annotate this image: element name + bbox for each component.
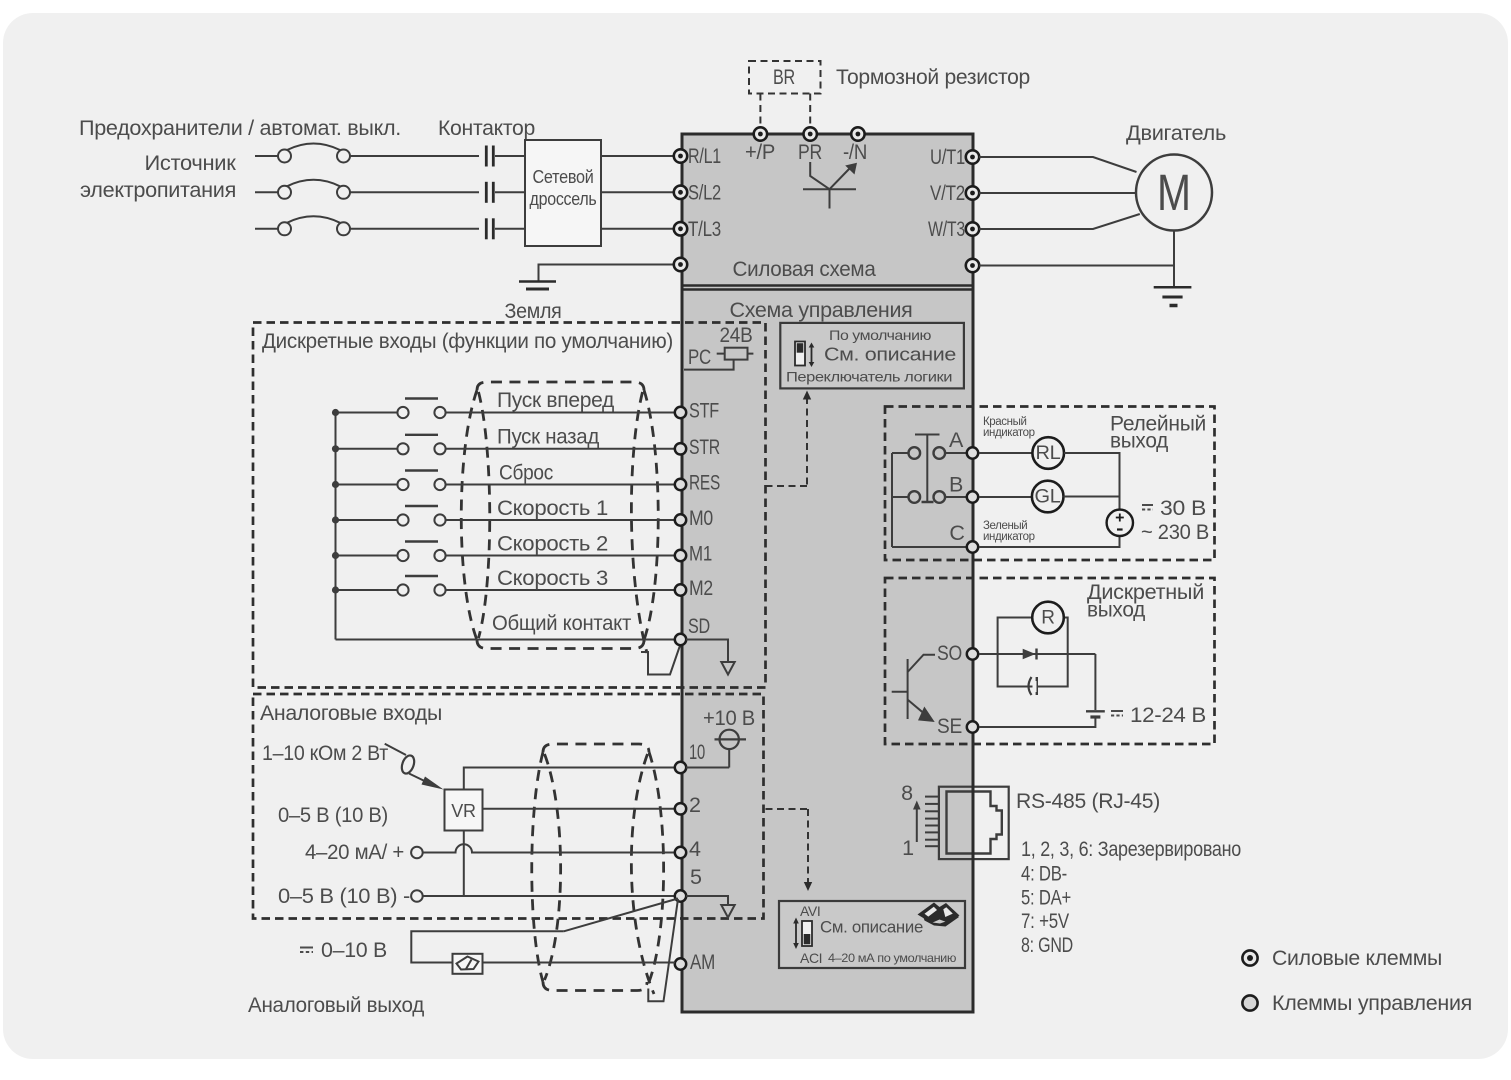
cable shield ellipse discrete bbox=[461, 382, 658, 653]
svg-text:0–5 В (10 В): 0–5 В (10 В) bbox=[278, 803, 388, 827]
switch M1 (Скорость 2) bbox=[336, 542, 676, 562]
svg-text:1, 2, 3, 6: Зарезервировано: 1, 2, 3, 6: Зарезервировано bbox=[1021, 837, 1241, 861]
input node voltage- bbox=[411, 890, 423, 902]
svg-text:A: A bbox=[949, 428, 964, 452]
wire U/T1 to motor bbox=[979, 157, 1137, 172]
svg-text:индикатор: индикатор bbox=[983, 531, 1035, 543]
svg-text:T/L3: T/L3 bbox=[688, 217, 721, 241]
terminal R/L1 bbox=[674, 149, 687, 162]
wire SD internal to ground arrow bbox=[686, 640, 728, 663]
wire reactor to S/L2 bbox=[601, 191, 675, 193]
shield hook to terminal 5 bbox=[648, 899, 678, 1001]
svg-text:M0: M0 bbox=[689, 506, 713, 530]
svg-text:1: 1 bbox=[902, 836, 914, 860]
VR box bbox=[445, 790, 483, 831]
svg-text:STR: STR bbox=[689, 435, 720, 459]
svg-text:Силовая схема: Силовая схема bbox=[733, 257, 876, 281]
node STR bus junction bbox=[332, 445, 339, 452]
wire B to GL lamp bbox=[979, 496, 1032, 498]
svg-text:R: R bbox=[1041, 608, 1054, 629]
terminal W/T3 bbox=[966, 222, 979, 235]
switch RES (Сброс) bbox=[336, 471, 676, 491]
terminal PE left bbox=[674, 258, 687, 271]
logic switch box (Переключатель логики) bbox=[780, 323, 964, 389]
svg-text:Общий контакт: Общий контакт bbox=[492, 611, 631, 635]
svg-text:PR: PR bbox=[798, 140, 822, 164]
svg-text:Тормозной резистор: Тормозной резистор bbox=[836, 65, 1030, 89]
svg-text:M1: M1 bbox=[689, 542, 712, 566]
relay contact B (NC) bbox=[892, 491, 966, 503]
switch STF (Пуск вперед) bbox=[336, 399, 676, 419]
svg-text:10: 10 bbox=[689, 740, 705, 764]
relay pole armature bbox=[915, 435, 940, 503]
terminal T/L3 bbox=[674, 222, 687, 235]
24V fuse PC bbox=[684, 323, 753, 370]
svg-text:8: 8 bbox=[901, 781, 913, 805]
terminal STF bbox=[675, 407, 686, 418]
svg-text:Пуск назад: Пуск назад bbox=[497, 425, 600, 449]
terminal AM bbox=[675, 958, 686, 969]
svg-text:электропитания: электропитания bbox=[80, 178, 236, 202]
analog output loop wires bbox=[411, 899, 678, 963]
wire phase T input bbox=[255, 228, 525, 230]
ground symbol Земля bbox=[519, 282, 556, 290]
cable shield ellipse analog bbox=[532, 744, 664, 994]
terminal 4 bbox=[675, 847, 686, 858]
svg-text:4–20 мА по умолчанию: 4–20 мА по умолчанию bbox=[828, 951, 956, 965]
terminal B bbox=[967, 491, 978, 502]
snubber loop with R lamp bbox=[998, 618, 1068, 687]
svg-text:+/P: +/P bbox=[745, 140, 775, 164]
label: Красный индикатор bbox=[983, 416, 1035, 439]
inverter main box bbox=[682, 134, 973, 1012]
svg-text:PC: PC bbox=[688, 345, 711, 369]
contactor contact phase T bbox=[486, 218, 493, 239]
brake chopper transistor bbox=[803, 162, 857, 209]
input node 4-20mA bbox=[411, 847, 423, 859]
svg-text:ACI: ACI bbox=[800, 950, 822, 966]
terminal M1 bbox=[675, 550, 686, 561]
dashed wire BR to PR bbox=[809, 94, 811, 128]
svg-text:-/N: -/N bbox=[843, 140, 867, 164]
svg-text:Скорость 1: Скорость 1 bbox=[497, 496, 608, 520]
dashed link analog box to AVI selector bbox=[766, 809, 813, 891]
svg-text:5: DA+: 5: DA+ bbox=[1021, 886, 1071, 910]
label: = 12-24 В bbox=[1111, 703, 1206, 727]
label: Релейный выход bbox=[1110, 412, 1206, 453]
wire voltage input lower bbox=[423, 895, 676, 897]
svg-text:Контактор: Контактор bbox=[438, 116, 535, 140]
contactor contact phase R bbox=[486, 146, 493, 167]
switch M2 (Скорость 3) bbox=[336, 576, 676, 596]
line reactor box: Сетевой дроссель bbox=[525, 140, 601, 246]
diode on SO wire bbox=[1023, 649, 1037, 660]
svg-text:M: M bbox=[1157, 164, 1191, 221]
svg-text:Сброс: Сброс bbox=[499, 461, 553, 485]
terminal 2 bbox=[675, 803, 686, 814]
terminal SD bbox=[675, 634, 686, 645]
svg-text:4: 4 bbox=[689, 837, 701, 861]
wire VR lower leg bbox=[463, 831, 465, 897]
terminal RES bbox=[675, 479, 686, 490]
svg-text:дроссель: дроссель bbox=[530, 189, 597, 209]
svg-text:Клеммы управления: Клеммы управления bbox=[1272, 991, 1472, 1015]
svg-text:Предохранители / автомат. выкл: Предохранители / автомат. выкл. bbox=[79, 116, 401, 140]
wire SD common bbox=[336, 639, 676, 641]
open collector transistor bbox=[892, 655, 935, 721]
svg-text:Пуск вперед: Пуск вперед bbox=[497, 388, 615, 412]
node STF bus junction bbox=[332, 409, 339, 416]
svg-text:1–10 кОм 2 Вт: 1–10 кОм 2 Вт bbox=[262, 741, 388, 765]
svg-text:Двигатель: Двигатель bbox=[1126, 121, 1226, 145]
brake resistor BR dashed box bbox=[749, 61, 821, 94]
terminal M2 bbox=[675, 584, 686, 595]
ground arrow at SD bbox=[721, 662, 734, 675]
svg-text:24В: 24В bbox=[720, 323, 753, 347]
wire W/T3 to motor bbox=[979, 214, 1140, 229]
svg-text:См. описание: См. описание bbox=[820, 919, 923, 937]
svg-text:AM: AM bbox=[690, 950, 715, 974]
node RES bus junction bbox=[332, 481, 339, 488]
svg-text:Скорость 2: Скорость 2 bbox=[497, 532, 608, 556]
svg-text:SD: SD bbox=[688, 614, 710, 638]
svg-text:W/T3: W/T3 bbox=[928, 217, 965, 241]
battery source relay circuit bbox=[1107, 510, 1133, 536]
node M0 bus junction bbox=[332, 516, 339, 523]
fuse/breaker switch phase T bbox=[278, 216, 350, 235]
svg-text:См. описание: См. описание bbox=[824, 344, 956, 365]
fuse/breaker switch phase S bbox=[278, 180, 350, 199]
svg-text:U/T1: U/T1 bbox=[930, 145, 965, 169]
svg-text:Дискретные входы (функции по у: Дискретные входы (функции по умолчанию) bbox=[262, 329, 673, 353]
svg-text:выход: выход bbox=[1110, 429, 1169, 453]
terminal S/L2 bbox=[674, 186, 687, 199]
wire terminal 5 to internal ground arrow bbox=[686, 896, 728, 905]
+10V source symbol bbox=[686, 730, 746, 768]
relay supply wires bbox=[979, 453, 1120, 547]
svg-text:Аналоговые входы: Аналоговые входы bbox=[260, 701, 442, 725]
svg-text:Скорость 3: Скорость 3 bbox=[497, 566, 608, 590]
svg-text:0–5 В (10 В) -: 0–5 В (10 В) - bbox=[278, 884, 410, 908]
wire V/T2 to motor bbox=[979, 192, 1136, 194]
dashed link logic box to discrete inputs bbox=[766, 391, 812, 487]
node M2 bus junction bbox=[332, 586, 339, 593]
terminal C bbox=[967, 541, 978, 552]
logic slide switch icon bbox=[795, 342, 814, 368]
wire VR to terminal 10 bbox=[464, 768, 675, 790]
ground arrow at terminal 5 bbox=[721, 905, 734, 918]
book icon (see manual) bbox=[918, 903, 960, 927]
svg-text:0–10 В: 0–10 В bbox=[321, 938, 387, 962]
svg-text:SE: SE bbox=[937, 714, 962, 738]
switch M0 (Скорость 1) bbox=[336, 506, 676, 526]
label: Дискретный выход bbox=[1087, 580, 1204, 622]
wire reactor to R/L1 bbox=[601, 155, 675, 157]
pin order arrow bbox=[913, 801, 921, 843]
lamp RL (red indicator) bbox=[1032, 437, 1064, 469]
wire current input with hop bbox=[423, 844, 676, 852]
svg-text:B: B bbox=[949, 473, 963, 497]
relay output dashed box bbox=[885, 407, 1215, 561]
svg-text:индикатор: индикатор bbox=[983, 427, 1035, 439]
potentiometer symbol bbox=[385, 744, 444, 790]
svg-text:RL: RL bbox=[1036, 443, 1061, 464]
svg-text:выход: выход bbox=[1087, 598, 1146, 622]
svg-text:По умолчанию: По умолчанию bbox=[829, 327, 931, 343]
contactor contact phase S bbox=[486, 182, 493, 203]
svg-text:GL: GL bbox=[1035, 487, 1061, 508]
terminal 10 bbox=[675, 762, 686, 773]
legend power terminal symbol bbox=[1242, 950, 1257, 965]
wire phase S input bbox=[255, 191, 525, 193]
terminal PR bbox=[804, 127, 817, 140]
svg-text:Переключатель логики: Переключатель логики bbox=[786, 369, 952, 385]
terminal SO bbox=[967, 648, 978, 659]
fuse/breaker switch phase R bbox=[278, 144, 350, 163]
relay common wire to C bbox=[892, 453, 966, 547]
terminal SE bbox=[967, 721, 978, 732]
terminal V/T2 bbox=[966, 186, 979, 199]
svg-text:BR: BR bbox=[773, 65, 795, 89]
motor earth wire bbox=[979, 231, 1174, 288]
svg-text:Источник: Источник bbox=[145, 151, 237, 175]
terminal U/T1 bbox=[966, 150, 979, 163]
legend control terminal symbol bbox=[1242, 995, 1257, 1010]
wire VR to terminal 2 bbox=[483, 808, 676, 810]
label: = 30 В bbox=[1142, 496, 1206, 520]
terminal -/N bbox=[851, 127, 864, 140]
wire SO row with diode bbox=[979, 653, 1095, 655]
analog meter symbol bbox=[453, 954, 483, 974]
node M1 bus junction bbox=[332, 552, 339, 559]
motor M bbox=[1136, 155, 1212, 231]
AVI/ACI slide switch icon bbox=[793, 918, 812, 950]
svg-text:30 В: 30 В bbox=[1160, 496, 1206, 520]
AVI/ACI selector box bbox=[779, 901, 965, 968]
svg-text:AVI: AVI bbox=[800, 903, 820, 919]
svg-text:~ 230 В: ~ 230 В bbox=[1141, 520, 1209, 544]
svg-text:8: GND: 8: GND bbox=[1021, 933, 1073, 957]
input bus vertical wire bbox=[335, 413, 337, 640]
wire reactor to T/L3 bbox=[601, 228, 675, 230]
svg-text:RES: RES bbox=[689, 471, 720, 495]
wire A to RL lamp bbox=[979, 452, 1032, 454]
earth wire from PE terminal bbox=[539, 265, 676, 282]
terminal 5 bbox=[675, 890, 686, 901]
svg-text:Земля: Земля bbox=[505, 299, 562, 323]
lamp R bbox=[1032, 602, 1064, 634]
terminal STR bbox=[675, 443, 686, 454]
power/control divider bbox=[682, 286, 973, 290]
battery source discrete output bbox=[979, 654, 1105, 727]
svg-text:+10 В: +10 В bbox=[703, 706, 755, 730]
dashed wire BR to +/P bbox=[759, 94, 761, 128]
RJ-45 pins 1-8 bbox=[925, 797, 939, 847]
svg-text:4: DB-: 4: DB- bbox=[1021, 862, 1067, 886]
svg-text:RS-485 (RJ-45): RS-485 (RJ-45) bbox=[1016, 789, 1160, 813]
svg-text:M2: M2 bbox=[689, 576, 713, 600]
discrete inputs dashed box bbox=[253, 323, 766, 688]
terminal M0 bbox=[675, 514, 686, 525]
svg-text:V/T2: V/T2 bbox=[930, 181, 965, 205]
svg-text:4–20 мА/ +: 4–20 мА/ + bbox=[305, 840, 404, 864]
svg-text:Силовые клеммы: Силовые клеммы bbox=[1272, 946, 1442, 970]
analog inputs dashed box bbox=[253, 694, 764, 919]
svg-text:C: C bbox=[949, 521, 964, 545]
svg-text:12-24 В: 12-24 В bbox=[1130, 703, 1206, 727]
switch STR (Пуск назад) bbox=[336, 435, 676, 455]
RS-485 RJ-45 connector bbox=[939, 785, 1009, 860]
lamp GL (green indicator) bbox=[1032, 481, 1064, 513]
motor ground symbol bbox=[1154, 287, 1192, 305]
svg-text:7: +5V: 7: +5V bbox=[1021, 909, 1070, 933]
svg-text:Схема управления: Схема управления bbox=[730, 298, 913, 322]
relay contact A (NO) bbox=[892, 447, 966, 459]
label: = 0–10 В bbox=[300, 938, 387, 962]
terminal A bbox=[967, 447, 978, 458]
svg-text:5: 5 bbox=[690, 865, 702, 889]
label: Зеленый индикатор bbox=[983, 520, 1035, 543]
svg-text:2: 2 bbox=[689, 793, 701, 817]
svg-text:SO: SO bbox=[937, 641, 962, 665]
svg-text:S/L2: S/L2 bbox=[688, 180, 721, 204]
svg-text:R/L1: R/L1 bbox=[688, 144, 721, 168]
shield hook to SD bbox=[641, 646, 680, 675]
svg-text:VR: VR bbox=[451, 801, 476, 821]
terminal +/P bbox=[754, 127, 767, 140]
svg-text:Аналоговый выход: Аналоговый выход bbox=[248, 993, 425, 1017]
terminal PE right bbox=[966, 259, 979, 272]
svg-text:Сетевой: Сетевой bbox=[533, 167, 594, 187]
discrete output dashed box bbox=[885, 578, 1215, 744]
wire phase R input bbox=[255, 155, 525, 157]
capacitor on snubber loop bbox=[1029, 677, 1037, 695]
svg-text:STF: STF bbox=[689, 399, 719, 423]
